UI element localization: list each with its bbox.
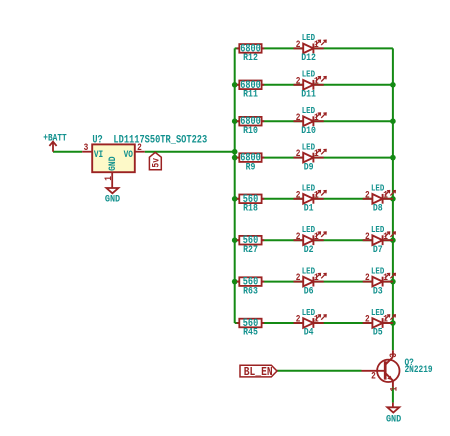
svg-text:BL_EN: BL_EN (244, 366, 273, 379)
svg-text:LED: LED (302, 105, 315, 116)
svg-text:D2: D2 (304, 243, 314, 255)
svg-text:GND: GND (106, 156, 118, 171)
junction left rail y=84.8 (232, 82, 238, 88)
wire row 3 (235, 120, 393, 122)
LED D3 (363, 273, 396, 286)
svg-text:2: 2 (296, 190, 301, 201)
svg-text:2: 2 (296, 272, 301, 283)
svg-text:LED: LED (371, 266, 384, 277)
global label BL_EN (240, 365, 277, 379)
svg-text:LED: LED (371, 224, 384, 235)
junction right rail y=84.8 (390, 82, 396, 88)
svg-text:LED: LED (371, 183, 384, 194)
transistor Q? 2N2219 (362, 350, 433, 391)
resistor R10 (237, 115, 265, 136)
LED D7 (363, 232, 396, 245)
resistor R11 (237, 79, 265, 100)
wire row 4 (235, 157, 393, 159)
power flag +BATT (43, 133, 67, 152)
LED D2 (294, 232, 327, 245)
svg-text:1: 1 (103, 176, 114, 181)
svg-text:2: 2 (296, 148, 301, 159)
LED D10 (294, 113, 327, 126)
svg-text:2: 2 (296, 231, 301, 242)
svg-text:R27: R27 (243, 243, 258, 255)
svg-text:R10: R10 (243, 124, 258, 136)
junction left rail y=240.2 (232, 237, 238, 243)
svg-text:1: 1 (389, 387, 400, 392)
svg-text:LED: LED (302, 307, 315, 318)
svg-text:VI: VI (94, 149, 103, 160)
wire row 2 (235, 84, 393, 86)
LED D5 (363, 315, 396, 328)
ground (regulator) (105, 188, 121, 205)
LED D9 (294, 149, 327, 162)
wire Q emitter to GND (392, 387, 394, 402)
svg-text:2: 2 (371, 371, 376, 382)
junction right rail y=323.0 (390, 320, 396, 326)
svg-text:R12: R12 (243, 51, 258, 63)
svg-text:D12: D12 (301, 51, 316, 63)
wire row 6 (235, 239, 393, 241)
svg-text:2: 2 (296, 112, 301, 123)
svg-text:LED: LED (302, 69, 315, 80)
junction right rail y=240.2 (390, 237, 396, 243)
svg-text:GND: GND (386, 413, 402, 425)
wire row 1 (235, 47, 393, 49)
svg-text:D8: D8 (373, 202, 383, 214)
svg-text:D9: D9 (304, 160, 314, 172)
svg-text:+BATT: +BATT (43, 133, 67, 144)
regulator U? LD1117S50TR_SOT223 (82, 134, 207, 188)
junction left rail y=198.8 (232, 196, 238, 202)
svg-text:3: 3 (84, 142, 89, 153)
svg-text:LD1117S50TR_SOT223: LD1117S50TR_SOT223 (113, 134, 207, 146)
svg-text:R9: R9 (246, 160, 256, 172)
svg-text:D3: D3 (373, 284, 383, 296)
svg-text:2: 2 (365, 231, 370, 242)
svg-text:D5: D5 (373, 326, 383, 338)
LED D4 (294, 315, 327, 328)
svg-text:2: 2 (365, 314, 370, 325)
net label 5v (149, 152, 161, 169)
svg-text:3: 3 (388, 353, 399, 358)
svg-text:D10: D10 (301, 124, 316, 136)
svg-text:2: 2 (296, 76, 301, 87)
LED D11 (294, 77, 327, 90)
svg-text:2N2219: 2N2219 (405, 364, 433, 375)
wire row 5 (235, 198, 393, 200)
svg-text:2: 2 (365, 272, 370, 283)
resistor R27 (237, 234, 265, 255)
svg-text:LED: LED (371, 307, 384, 318)
junction left rail y=121.2 (232, 118, 238, 124)
resistor R45 (237, 317, 265, 338)
svg-text:R11: R11 (243, 88, 258, 100)
svg-text:R18: R18 (243, 202, 258, 214)
junction right rail y=157.6 (390, 155, 396, 161)
svg-text:LED: LED (302, 266, 315, 277)
wire regulator VO to left rail (145, 151, 235, 153)
wire row 7 (235, 281, 393, 283)
svg-text:2: 2 (365, 190, 370, 201)
wire +BATT to regulator VI (53, 151, 82, 153)
junction left rail y=151.7 (232, 149, 238, 155)
svg-text:2: 2 (296, 314, 301, 325)
svg-text:D1: D1 (304, 202, 314, 214)
svg-text:D11: D11 (301, 88, 316, 100)
svg-text:R63: R63 (243, 284, 258, 296)
wire right vertical rail (392, 48, 394, 350)
svg-text:LED: LED (302, 183, 315, 194)
junction left rail y=157.6 (232, 155, 238, 161)
svg-text:LED: LED (302, 224, 315, 235)
svg-text:2: 2 (296, 39, 301, 50)
LED D8 (363, 191, 396, 204)
svg-text:U?: U? (92, 134, 102, 146)
wire left vertical rail (234, 48, 236, 323)
resistor R9 (237, 152, 265, 173)
svg-text:D6: D6 (304, 284, 314, 296)
svg-text:D7: D7 (373, 243, 383, 255)
junction right rail y=198.8 (390, 196, 396, 202)
resistor R18 (237, 193, 265, 214)
resistor R12 (237, 42, 265, 63)
svg-text:5v: 5v (149, 158, 161, 168)
ground (transistor emitter) (386, 403, 402, 425)
svg-text:GND: GND (105, 193, 121, 205)
resistor R63 (237, 276, 265, 297)
wire BL_EN to Q base (277, 370, 362, 372)
wire row 8 (235, 322, 393, 324)
svg-text:R45: R45 (243, 326, 258, 338)
svg-text:LED: LED (302, 142, 315, 153)
junction left rail y=281.6 (232, 279, 238, 285)
svg-text:D4: D4 (304, 326, 314, 338)
junction right rail y=281.6 (390, 279, 396, 285)
junction right rail y=121.2 (390, 118, 396, 124)
LED D12 (294, 40, 327, 53)
LED D1 (294, 191, 327, 204)
svg-text:LED: LED (302, 32, 315, 43)
LED D6 (294, 273, 327, 286)
svg-text:VO: VO (124, 149, 134, 160)
